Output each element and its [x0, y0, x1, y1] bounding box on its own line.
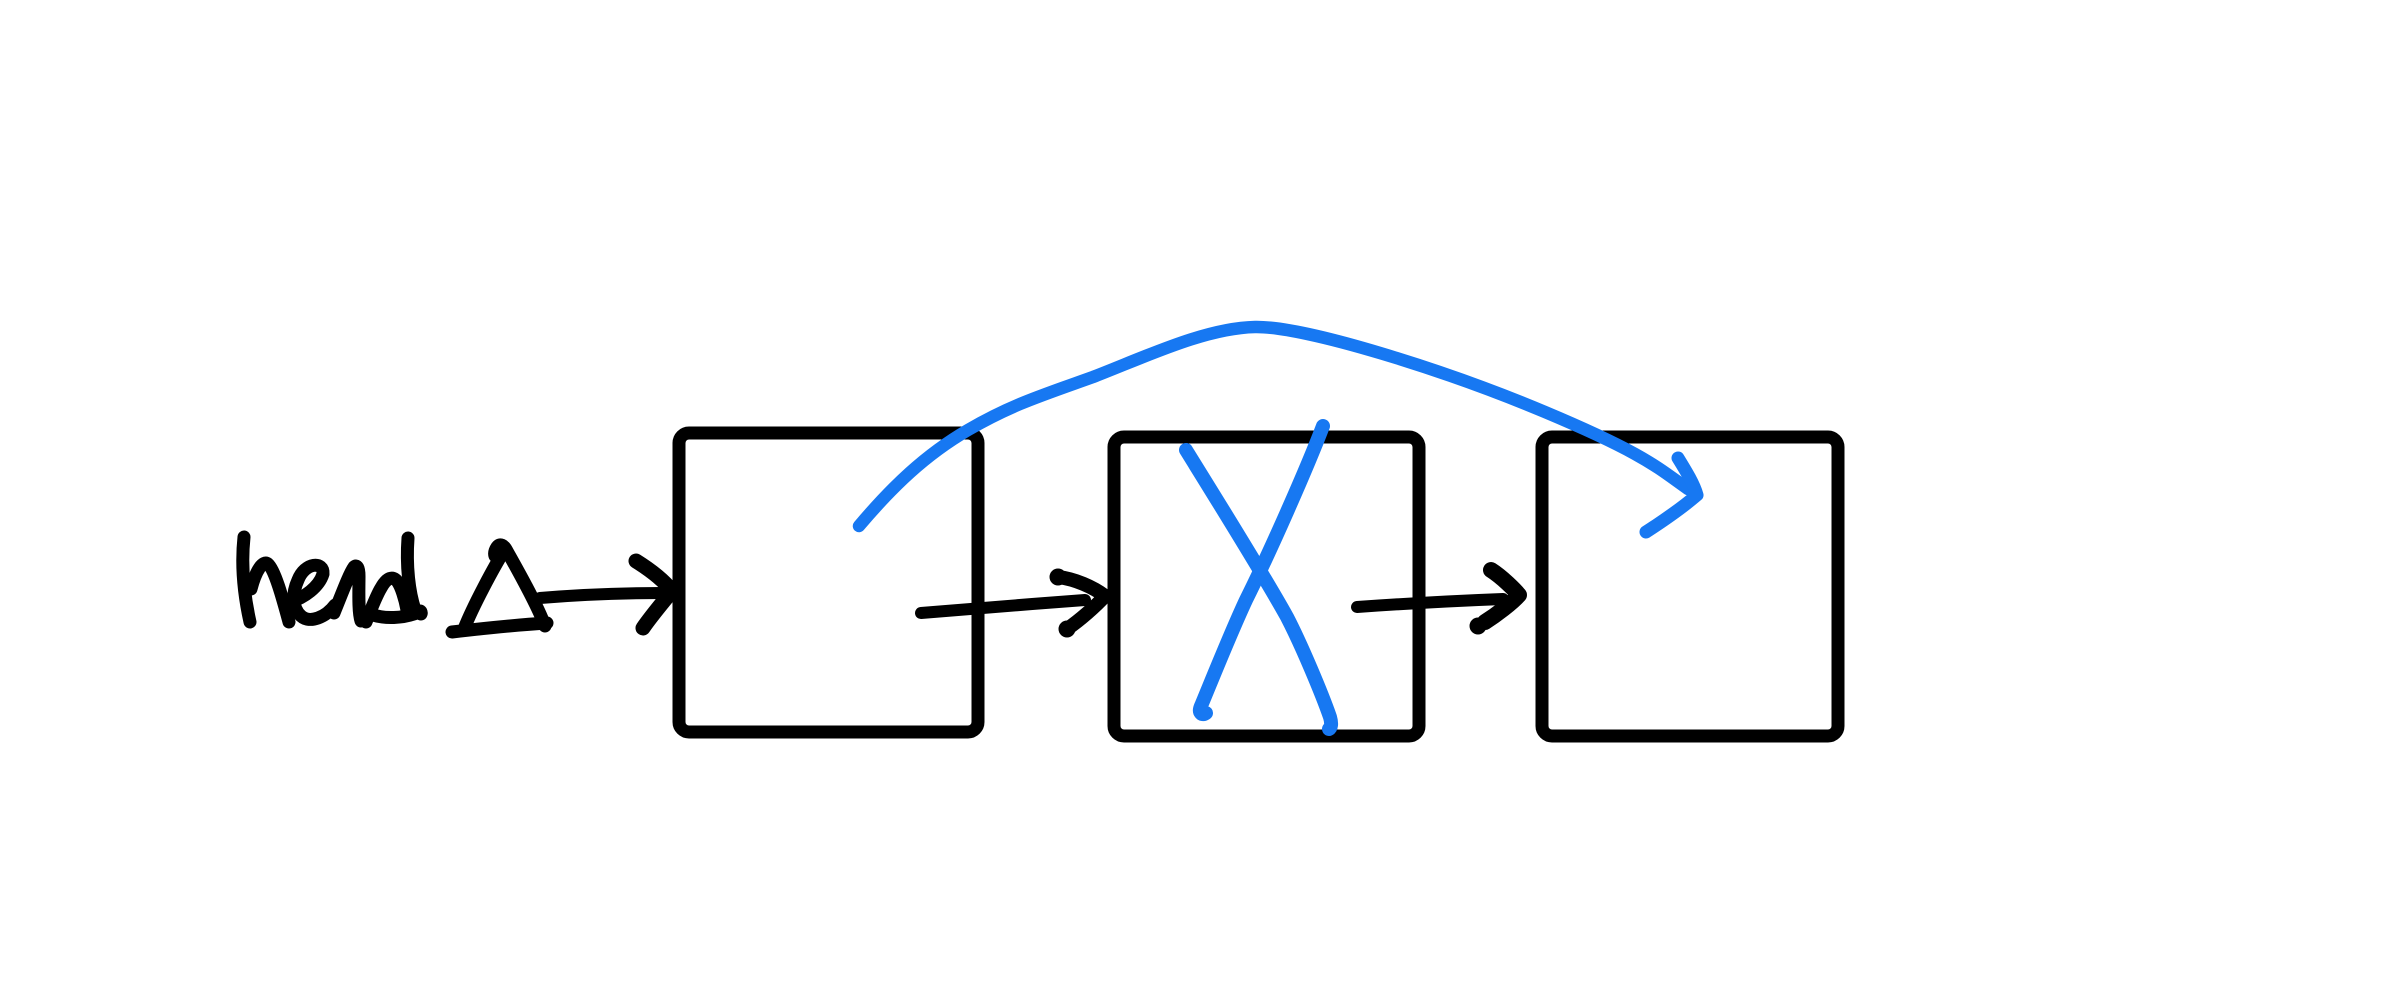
- arrow node2 to node3: [1357, 570, 1519, 635]
- node box 1: [679, 433, 978, 732]
- node box 3: [1542, 437, 1838, 736]
- arrow node1 to node2: [921, 569, 1105, 638]
- blue bypass arc node1 to node3: [859, 327, 1697, 532]
- head pointer triangle: [452, 545, 547, 632]
- node box 2 (to delete): [1114, 437, 1419, 736]
- blue X deletion mark over node 2: [1186, 426, 1331, 729]
- arrow head to node1: [540, 561, 672, 628]
- label head (handwritten): [243, 537, 428, 622]
